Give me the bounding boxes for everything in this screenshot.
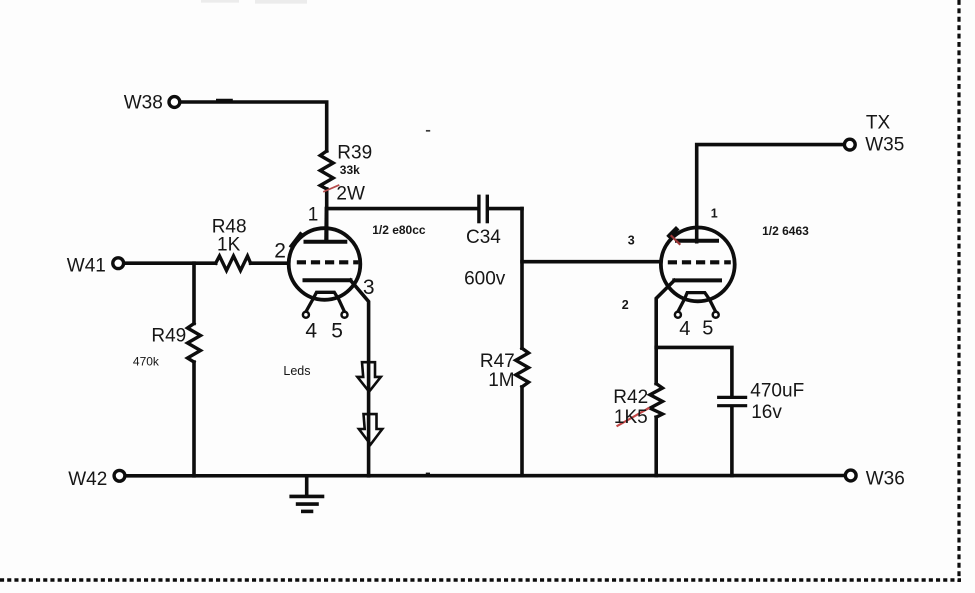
svg-text:R49: R49	[151, 326, 186, 347]
svg-text:4: 4	[679, 318, 690, 340]
svg-text:W36: W36	[866, 468, 905, 489]
tube U1 envelope (1/2 e80cc)	[289, 228, 361, 300]
wire vertical rail C34/R47	[520, 209, 524, 349]
wire rail to tube2 grid	[522, 260, 659, 264]
capacitor C34	[479, 196, 487, 221]
terminal W41	[113, 258, 124, 269]
svg-text:2W: 2W	[336, 183, 365, 204]
svg-text:5: 5	[331, 319, 343, 342]
artifact top edge mark 1	[201, 0, 239, 3]
resistor R42	[650, 384, 663, 418]
ground	[291, 476, 322, 512]
tube U2 plate bar	[677, 239, 717, 243]
resistor R49	[188, 324, 201, 363]
svg-text:R47: R47	[480, 351, 515, 372]
wire W41 to R48	[124, 261, 216, 265]
tube U1 hand mark	[292, 235, 301, 247]
wire R47 to bottom rail	[520, 387, 524, 476]
svg-text:16v: 16v	[751, 402, 782, 423]
svg-text:R42: R42	[613, 387, 648, 408]
svg-text:1/2 e80cc: 1/2 e80cc	[372, 223, 426, 237]
tube U2 hand mark	[670, 230, 676, 236]
tube U1 grid (dashed)	[297, 260, 359, 264]
tube U1 pin 5 circle	[342, 312, 348, 318]
artifact bump on W38 wire	[217, 99, 231, 102]
wire junction down to R49	[192, 263, 196, 323]
wire C34 to vertical rail	[489, 207, 522, 211]
tube U2 pin 5 circle	[713, 312, 719, 318]
capacitor C (470uF)	[719, 397, 746, 405]
svg-text:1M: 1M	[488, 370, 514, 391]
svg-text:1: 1	[308, 204, 319, 225]
svg-text:2: 2	[622, 298, 629, 312]
wire TX W35	[697, 145, 845, 242]
wire R48 to tube1 grid	[251, 261, 289, 265]
svg-text:33k: 33k	[340, 163, 360, 177]
wire cathode branch to C	[656, 347, 732, 396]
svg-text:W38: W38	[124, 93, 163, 114]
resistor R48	[216, 256, 251, 271]
LED D2	[359, 414, 382, 444]
wire U2 cathode exit pin 2	[656, 280, 674, 383]
svg-text:600v: 600v	[464, 269, 506, 290]
svg-text:R39: R39	[337, 142, 372, 163]
resistor R47	[516, 348, 529, 387]
svg-text:TX: TX	[866, 112, 891, 133]
tube U1 heater	[306, 292, 345, 312]
border bottom dashed	[0, 578, 961, 581]
svg-text:W41: W41	[67, 255, 106, 276]
tube U1 pin 4 circle	[303, 312, 309, 318]
svg-text:W42: W42	[68, 469, 107, 490]
tube U2 cathode bar	[674, 278, 720, 282]
svg-text:2: 2	[274, 240, 286, 263]
red mark tube U2	[672, 236, 680, 244]
terminal W36	[845, 470, 856, 481]
LED D1	[357, 362, 380, 392]
wire U1 cathode exit pin 3	[350, 280, 368, 476]
svg-text:5: 5	[702, 318, 713, 340]
svg-text:Leds: Leds	[283, 364, 310, 378]
tube U2 heater	[678, 293, 716, 312]
tube U1 plate bar	[306, 240, 346, 244]
artifact gray dash near x=428	[426, 130, 430, 132]
wire node to C34	[327, 207, 477, 211]
artifact top edge mark 2	[255, 0, 307, 4]
wire R49 to bottom rail	[192, 362, 196, 476]
tube U2 grid (dashed)	[668, 260, 731, 264]
resistor R39	[320, 151, 333, 189]
wire W38 horizontal	[180, 102, 327, 151]
wire R39 to plate (through node)	[325, 189, 329, 241]
terminal W42	[114, 470, 125, 481]
svg-text:3: 3	[628, 233, 635, 247]
border right dashed	[957, 0, 960, 582]
tube U1 plate lead pin 1	[324, 209, 328, 241]
svg-text:W35: W35	[865, 135, 904, 156]
svg-text:4: 4	[305, 319, 317, 342]
red strike 1K5	[618, 408, 649, 426]
svg-text:470uF: 470uF	[750, 381, 804, 402]
tube U1 cathode bar	[305, 278, 351, 282]
svg-text:3: 3	[363, 276, 375, 299]
wire C to bottom rail	[730, 407, 734, 476]
svg-text:1K: 1K	[217, 235, 241, 256]
tube U2 envelope (1/2 6463)	[661, 228, 735, 302]
terminal W38	[169, 97, 180, 108]
tube U2 pin 4 circle	[675, 312, 681, 318]
svg-text:C34: C34	[466, 227, 501, 248]
wire bottom rail W42-W36	[126, 474, 846, 478]
artifact tick on bottom wire	[426, 473, 430, 475]
red mark R39	[324, 185, 339, 191]
svg-text:1: 1	[711, 207, 718, 221]
wire R42 to bottom rail	[654, 417, 658, 475]
svg-text:470k: 470k	[133, 355, 160, 369]
terminal W35	[844, 139, 855, 150]
svg-text:1K5: 1K5	[614, 407, 648, 428]
svg-text:1/2 6463: 1/2 6463	[762, 224, 809, 238]
